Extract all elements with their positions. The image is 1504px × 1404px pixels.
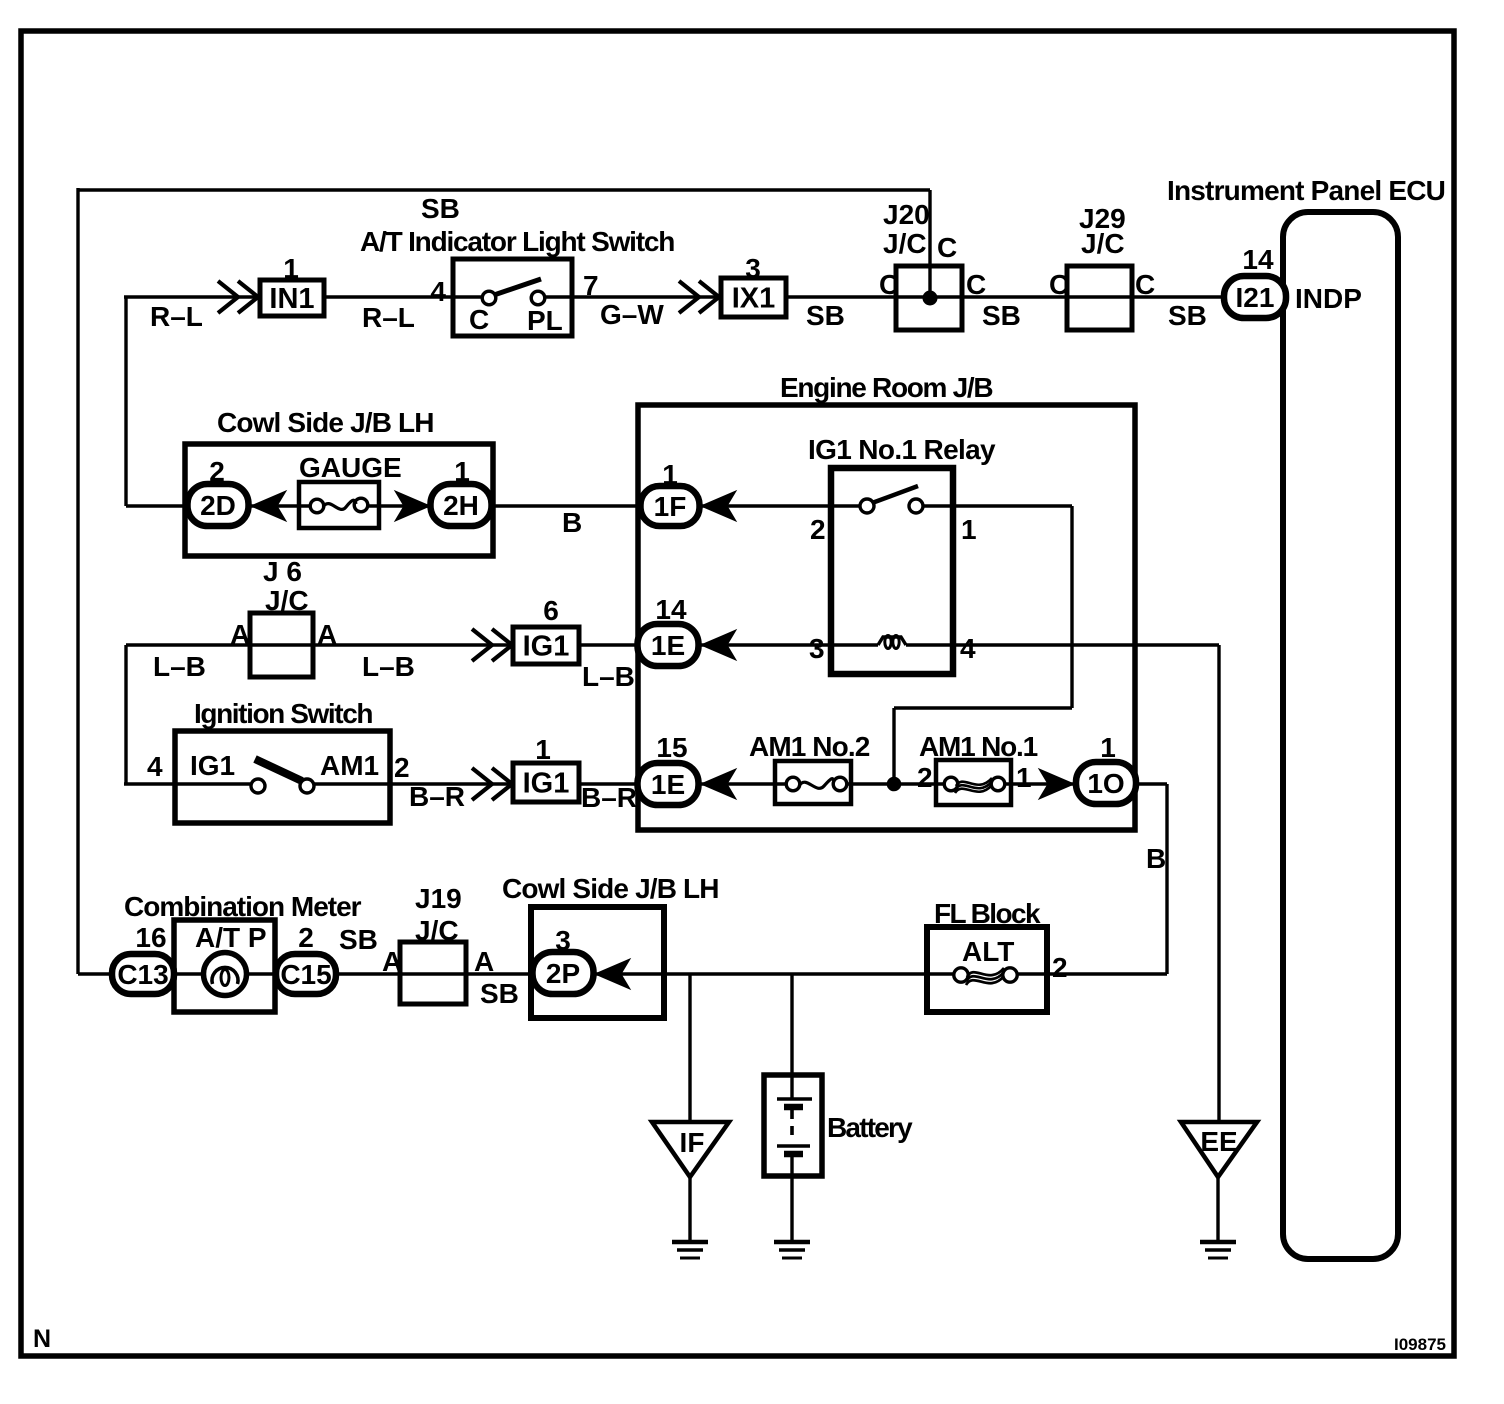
battery plate short top [784, 1104, 803, 1111]
wire 2D row from drop to fuse [126, 504, 317, 507]
wire top SB loop horizontal [78, 188, 930, 191]
relay coil bump [878, 637, 906, 645]
svg-text:SB: SB [421, 193, 460, 224]
wire bottom row C13 segment [78, 972, 205, 975]
A/T Indicator Light Switch contact PL [531, 291, 545, 305]
svg-text:6: 6 [543, 595, 559, 626]
Engine Room J/B box [638, 405, 1135, 830]
junction block J29 box [1067, 266, 1132, 330]
svg-text:I21: I21 [1236, 282, 1275, 313]
svg-text:C13: C13 [117, 959, 168, 990]
svg-text:C: C [966, 269, 986, 300]
svg-text:C: C [1135, 269, 1155, 300]
fuse AM1 No.2 element [799, 779, 834, 789]
connector IN1 [260, 280, 324, 316]
svg-text:IF: IF [680, 1127, 705, 1158]
harness arrow into 2P [595, 959, 630, 989]
svg-text:Cowl Side J/B LH: Cowl Side J/B LH [217, 407, 434, 438]
svg-text:AM1 No.2: AM1 No.2 [749, 731, 870, 762]
svg-text:IG1: IG1 [523, 631, 570, 663]
chevrons before IN1 [218, 281, 238, 313]
battery bottom stem [790, 1154, 793, 1242]
svg-text:A/T P: A/T P [195, 922, 267, 953]
svg-text:J/C: J/C [1081, 228, 1125, 259]
wire L-B row to relay coil [126, 643, 878, 646]
svg-text:2: 2 [917, 762, 933, 793]
svg-text:1E: 1E [651, 630, 685, 661]
svg-text:J20: J20 [883, 199, 930, 230]
svg-text:1O: 1O [1087, 768, 1124, 799]
battery box [764, 1075, 822, 1176]
harness arrow into 2D [251, 491, 286, 521]
wire row1 G-W/SB segment right of A/T switch [544, 295, 1226, 298]
svg-text:J19: J19 [415, 883, 462, 914]
A/T Indicator Light Switch box [453, 259, 572, 336]
svg-text:3: 3 [555, 925, 571, 956]
connector 1O [1076, 762, 1136, 804]
svg-text:2D: 2D [200, 490, 236, 521]
Combination Meter box [174, 920, 275, 1012]
ground symbol EE [1200, 1240, 1236, 1245]
connector IX1 [721, 278, 786, 317]
junction dot AM1 fuses node [887, 777, 901, 791]
svg-text:AM1: AM1 [320, 750, 379, 781]
svg-text:Cowl Side J/B LH: Cowl Side J/B LH [502, 873, 719, 904]
svg-text:Instrument Panel ECU: Instrument Panel ECU [1167, 175, 1445, 206]
fusible link ALT circles [954, 968, 968, 982]
battery dashed internal [790, 1110, 794, 1142]
junction block J19 box [400, 942, 466, 1004]
svg-text:1: 1 [1100, 732, 1116, 763]
relay contact left [860, 499, 874, 513]
svg-text:EE: EE [1200, 1126, 1237, 1157]
svg-text:2: 2 [810, 514, 826, 545]
junction block J6 box [250, 613, 313, 677]
svg-text:C: C [1049, 269, 1069, 300]
svg-text:J 6: J 6 [263, 556, 302, 587]
svg-text:1: 1 [454, 456, 470, 487]
svg-text:14: 14 [655, 594, 687, 625]
svg-text:IX1: IX1 [732, 283, 776, 315]
svg-text:INDP: INDP [1295, 283, 1362, 314]
ground point IF triangle [652, 1122, 729, 1177]
svg-text:A: A [230, 619, 250, 650]
svg-text:IN1: IN1 [269, 283, 314, 315]
svg-text:4: 4 [960, 633, 976, 664]
wire relay pin1 vertical [1070, 506, 1073, 708]
svg-text:2H: 2H [443, 490, 479, 521]
connector IG1 row3 [513, 763, 579, 802]
svg-text:L–B: L–B [362, 651, 415, 682]
svg-text:1E: 1E [651, 769, 685, 800]
connector C13 [112, 954, 174, 994]
wire left SB loop vertical [76, 188, 79, 974]
harness arrow into 1E row2 [701, 630, 736, 660]
ground point EE triangle [1181, 1122, 1257, 1177]
svg-text:R–L: R–L [150, 301, 203, 332]
svg-text:L–B: L–B [582, 661, 635, 692]
wire ALT fuse to B corner [1016, 972, 1167, 975]
svg-text:B: B [1146, 843, 1166, 874]
fusible link ALT element [967, 968, 1004, 977]
Ignition Switch contact IG1 [251, 779, 265, 793]
svg-text:3: 3 [745, 253, 761, 284]
svg-text:A/T Indicator Light Switch: A/T Indicator Light Switch [360, 226, 674, 257]
svg-text:IG1 No.1 Relay: IG1 No.1 Relay [808, 434, 996, 465]
wire AM1 No.1 fuse to 1O and exit [1004, 782, 1167, 785]
svg-text:Combination Meter: Combination Meter [124, 891, 362, 922]
svg-text:A: A [382, 946, 402, 977]
wire IF drop vertical [688, 974, 691, 1122]
svg-text:1F: 1F [654, 491, 687, 522]
svg-text:FL Block: FL Block [934, 898, 1041, 929]
svg-text:Battery: Battery [827, 1112, 913, 1143]
wire jog down to AM1 junction [892, 708, 895, 784]
svg-text:G–W: G–W [600, 299, 664, 330]
svg-text:SB: SB [1168, 300, 1207, 331]
svg-text:14: 14 [1242, 244, 1274, 275]
svg-text:J/C: J/C [415, 915, 459, 946]
harness arrow into 1O [1039, 769, 1074, 799]
connector 1E row2 [638, 624, 699, 666]
A/T P indicator lamp [204, 953, 247, 996]
svg-text:15: 15 [656, 732, 687, 763]
connector 1E row3 [638, 763, 699, 805]
harness arrow into 2H [395, 491, 430, 521]
svg-text:R–L: R–L [362, 302, 415, 333]
svg-text:N: N [33, 1325, 51, 1353]
svg-text:C: C [879, 269, 899, 300]
svg-text:ALT: ALT [962, 936, 1014, 967]
svg-text:2: 2 [394, 752, 410, 783]
svg-text:J/C: J/C [883, 228, 927, 259]
chevrons before IG1 row2 [472, 629, 492, 661]
wire B vertical from 1O to FL row [1165, 784, 1168, 974]
svg-text:3: 3 [809, 633, 825, 664]
connector C15 [276, 954, 336, 994]
harness arrow into 1E row3 [701, 769, 736, 799]
Cowl Side J/B LH upper box [185, 444, 493, 556]
svg-text:7: 7 [583, 270, 599, 301]
svg-text:J/C: J/C [265, 585, 309, 616]
connector 1F [641, 486, 700, 526]
fuse AM1 No.1 circles [944, 777, 958, 791]
Ignition Switch contact AM1 [300, 779, 314, 793]
harness arrow into 1F [701, 491, 736, 521]
svg-text:L–B: L–B [153, 651, 206, 682]
chevrons before IX1 [679, 281, 699, 313]
wire J20 drop vertical [928, 190, 931, 298]
wire relay contact to corner [922, 504, 1072, 507]
chevrons before IG1 row3 [472, 768, 492, 800]
wire relay coil to EE drop [906, 643, 1219, 646]
svg-text:4: 4 [147, 751, 163, 782]
fuse AM1 No.2 box [775, 761, 851, 804]
svg-text:PL: PL [527, 305, 563, 336]
battery plate long bottom [777, 1144, 810, 1148]
svg-text:SB: SB [982, 300, 1021, 331]
connector 2P [533, 952, 594, 994]
Cowl Side J/B LH lower box [531, 907, 664, 1018]
svg-text:Ignition Switch: Ignition Switch [194, 698, 372, 729]
fuse AM1 No.1 element [956, 778, 992, 786]
Ignition Switch blade [255, 759, 302, 781]
wire IF tail [688, 1177, 691, 1242]
wire ignition row left segment [124, 782, 252, 785]
svg-text:IG1: IG1 [190, 750, 235, 781]
wire row1 R-L/G-W segment left of A/T switch [124, 295, 483, 298]
svg-text:B: B [562, 507, 582, 538]
wire EE tail [1216, 1177, 1219, 1242]
svg-text:IG1: IG1 [523, 768, 570, 800]
fuse AM1 No.1 box [936, 760, 1011, 805]
svg-text:1: 1 [1016, 762, 1032, 793]
svg-text:2: 2 [298, 922, 314, 953]
A/T Indicator Light Switch blade [494, 279, 541, 295]
svg-text:2P: 2P [546, 958, 580, 989]
wire EE vertical [1217, 645, 1220, 1122]
connector 2H [431, 484, 492, 526]
fuse AM1 No.2 circles [786, 777, 800, 791]
Ignition Switch box [175, 731, 390, 823]
fuse GAUGE element [323, 500, 356, 509]
connector IG1 row2 [513, 627, 579, 664]
wire AM1 No.2 fuse to AM1 No.1 fuse through junction [846, 782, 946, 785]
svg-text:1: 1 [535, 734, 551, 765]
svg-text:4: 4 [430, 276, 446, 307]
A/T Indicator Light Switch contact C [482, 291, 496, 305]
wire L-B vertical from ignition [124, 645, 127, 784]
relay IG1 No.1 box [831, 468, 953, 674]
wire 2D row fuse to relay contact [361, 504, 861, 507]
svg-text:Engine Room J/B: Engine Room J/B [780, 372, 992, 403]
wire relay pin1 horizontal jog [894, 706, 1072, 709]
svg-text:SB: SB [480, 978, 519, 1009]
FL Block box [927, 927, 1047, 1012]
battery plate long top [777, 1097, 812, 1101]
connector 2D [188, 484, 249, 526]
svg-text:SB: SB [806, 300, 845, 331]
Instrument Panel ECU outline [1283, 212, 1398, 1259]
svg-text:A: A [317, 619, 337, 650]
junction block J20 box [896, 266, 962, 330]
fuse GAUGE circles [310, 499, 324, 513]
fuse GAUGE box [299, 482, 379, 528]
svg-text:1: 1 [283, 253, 299, 284]
svg-text:SB: SB [339, 924, 378, 955]
wire battery top vertical [790, 974, 793, 1098]
battery ground symbol [774, 1240, 810, 1245]
svg-text:B–R: B–R [581, 782, 637, 813]
relay coil turns [885, 636, 891, 649]
relay contact right [909, 499, 923, 513]
relay blade [872, 486, 918, 503]
battery plate short bottom [784, 1151, 803, 1158]
svg-text:GAUGE: GAUGE [299, 452, 402, 483]
svg-text:1: 1 [961, 514, 977, 545]
junction dot inside J20 [923, 291, 937, 305]
svg-text:B–R: B–R [409, 781, 465, 812]
ground symbol IF [672, 1240, 708, 1245]
svg-text:2: 2 [1052, 952, 1068, 983]
svg-text:1: 1 [662, 459, 678, 490]
wire R-L vertical drop to 2D [124, 297, 127, 506]
connector I21 [1224, 276, 1286, 318]
svg-text:AM1 No.1: AM1 No.1 [919, 731, 1038, 762]
svg-text:C15: C15 [280, 959, 331, 990]
svg-text:16: 16 [135, 922, 166, 953]
svg-text:A: A [474, 946, 494, 977]
wire bottom row C15/J19/2P segment to ALT fuse [246, 972, 956, 975]
svg-text:C: C [937, 232, 957, 263]
svg-text:C: C [469, 304, 489, 335]
svg-text:I09875: I09875 [1394, 1335, 1446, 1354]
svg-text:2: 2 [209, 456, 225, 487]
wire ignition row right to AM1 No.2 fuse [313, 782, 788, 785]
